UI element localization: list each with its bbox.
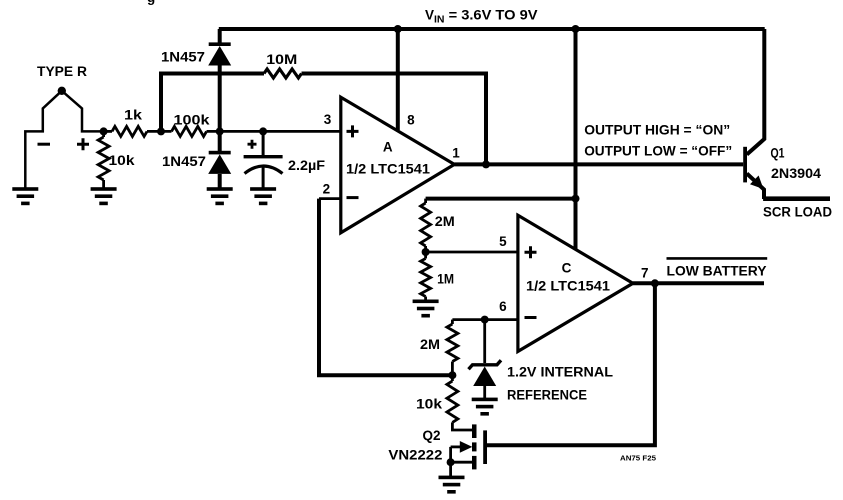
wire VIN vertical to comparator C [574, 29, 578, 249]
svg-text:1.2V INTERNAL: 1.2V INTERNAL [507, 365, 613, 380]
resistor 10M [264, 69, 302, 78]
wire pin 2 inverting input [319, 197, 341, 200]
ground thermocouple [12, 187, 38, 191]
node diode junction [216, 127, 224, 135]
svg-text:C: C [562, 261, 572, 276]
svg-text:10k: 10k [416, 397, 443, 412]
zener 1.2V internal reference [483, 320, 486, 363]
wire pin 2 feedback vertical [319, 199, 452, 376]
node pin6 zener junction [481, 316, 489, 324]
svg-text:8: 8 [407, 113, 415, 128]
wire VIN top rail [219, 27, 765, 31]
thermocouple TYPE R junction [58, 87, 66, 95]
svg-text:A: A [383, 140, 393, 155]
svg-text:TYPE R: TYPE R [37, 64, 87, 79]
svg-text:2M: 2M [420, 337, 440, 352]
svg-text:6: 6 [499, 299, 507, 314]
diode 1N457 lower clamp [209, 151, 231, 155]
svg-text:SCR LOAD: SCR LOAD [763, 205, 832, 220]
node thermocouple + input [100, 127, 108, 135]
node output C [651, 279, 659, 287]
svg-text:100k: 100k [174, 113, 211, 128]
svg-text:Q2: Q2 [422, 428, 440, 443]
wire divider top to VIN [426, 197, 576, 201]
wire Q1 emitter with arrow [747, 174, 764, 200]
svg-text:OUTPUT HIGH = “ON”: OUTPUT HIGH = “ON” [584, 122, 730, 138]
wire thermocouple negative leg [25, 91, 62, 188]
diode 1N457 upper clamp [209, 42, 231, 46]
wire Q2 body source tie [449, 447, 452, 476]
node divider mid [422, 248, 430, 256]
svg-text:1/2 LTC1541: 1/2 LTC1541 [526, 279, 611, 294]
label minus terminal [38, 143, 51, 146]
svg-text:LOW BATTERY: LOW BATTERY [667, 263, 767, 278]
wire output C LOW BATTERY [633, 281, 764, 285]
svg-text:3: 3 [324, 112, 332, 127]
wire thermocouple positive leg [62, 91, 104, 132]
wire node segment 3 to op amp pin 3 [207, 130, 341, 133]
ground D2 [207, 187, 233, 191]
resistor 2M divider [424, 199, 427, 203]
capacitor C1 2.2uF polarized [262, 131, 265, 155]
wire node to D2 [218, 131, 222, 151]
svg-text:AN75 F25: AN75 F25 [620, 456, 656, 463]
wire pin 8 supply [396, 29, 400, 130]
ground capacitor [250, 187, 276, 191]
node 1k/100k/10M junction [157, 127, 165, 135]
svg-text:Q1: Q1 [771, 146, 785, 161]
svg-text:10M: 10M [266, 52, 297, 67]
resistor 1k [112, 126, 147, 136]
wire pin 5 [426, 251, 518, 254]
wire D1 anode to node [218, 65, 222, 133]
ground 1M [413, 300, 439, 304]
svg-text:1M: 1M [437, 272, 454, 287]
wire 10M feedback left leg [161, 74, 264, 132]
node output A / 10M [482, 160, 490, 168]
svg-text:REFERENCE: REFERENCE [507, 388, 587, 403]
label plus terminal [77, 138, 89, 150]
wire pin 6 [452, 318, 518, 321]
resistor 10k lower [447, 381, 458, 422]
node VIN rail to D1 [218, 29, 222, 44]
wire node segment 2 [147, 130, 172, 133]
node capacitor junction [259, 127, 267, 135]
wire Q2 source [451, 461, 473, 464]
label capacitor plus [248, 140, 257, 149]
transistor Q2 VN2222 NMOS [472, 424, 477, 438]
resistor 100k [172, 126, 207, 136]
svg-text:2N3904: 2N3904 [771, 166, 822, 181]
resistor 1M [421, 259, 431, 297]
ground zener [472, 398, 498, 402]
resistor 2M lower [451, 320, 454, 324]
svg-text:OUTPUT LOW = “OFF”: OUTPUT LOW = “OFF” [584, 143, 732, 159]
svg-text:VN2222: VN2222 [388, 448, 442, 463]
wire output A to Q1 base [454, 162, 743, 166]
wire node segment 1 [104, 130, 112, 133]
svg-text:1: 1 [452, 146, 460, 161]
svg-text:5: 5 [499, 234, 507, 249]
svg-text:1k: 1k [124, 108, 143, 123]
label LOW BATTERY overline [667, 257, 768, 260]
svg-text:2.2µF: 2.2µF [288, 158, 325, 173]
svg-text:7: 7 [641, 266, 649, 281]
svg-text:1N457: 1N457 [161, 50, 205, 65]
svg-text:g: g [147, 0, 155, 5]
comparator C 1/2 LTC1541 [518, 215, 633, 351]
ground 10k shunt [91, 187, 117, 191]
transistor Q1 2N3904 [743, 147, 747, 183]
resistor 10k thermocouple shunt [102, 131, 105, 137]
wire SCR LOAD bar [763, 196, 830, 201]
svg-text:2: 2 [323, 182, 331, 197]
svg-text:1/2 LTC1541: 1/2 LTC1541 [346, 162, 431, 177]
wire Q2 body with arrow [451, 445, 462, 448]
wire Q1 collector [747, 29, 765, 155]
wire D2 anode to ground [218, 174, 222, 188]
svg-text:2M: 2M [435, 214, 455, 229]
node Q2 source body [447, 458, 455, 466]
node 2M 10k feedback junction [448, 371, 456, 379]
node rail pin8 [394, 25, 402, 33]
wire output C down to Q2 gate [487, 283, 655, 445]
op-amp A 1/2 LTC1541 [341, 97, 455, 233]
wire 10M feedback right leg to output [302, 74, 487, 165]
node rail VIN branch [572, 25, 580, 33]
svg-text:1N457: 1N457 [162, 154, 206, 169]
ground Q2 [439, 476, 465, 480]
svg-text:10k: 10k [109, 153, 136, 168]
node divider VIN junction [572, 195, 580, 203]
